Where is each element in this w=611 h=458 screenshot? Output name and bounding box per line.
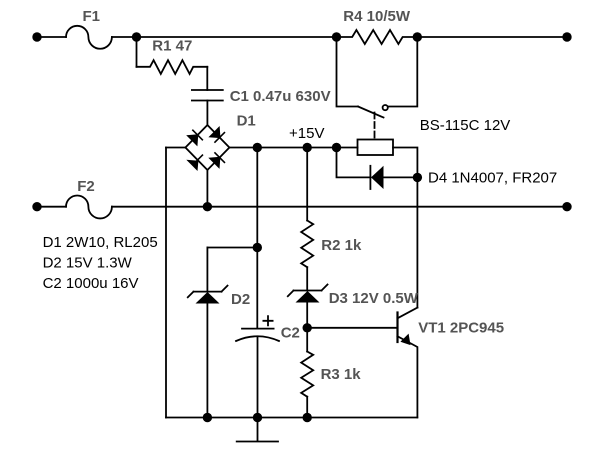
wire bottom rail <box>166 417 417 419</box>
wire bridge right to +15V rail <box>229 147 357 149</box>
svg-text:R1 47: R1 47 <box>152 38 192 55</box>
wire R2 branch top <box>306 148 308 221</box>
svg-text:D4 1N4007, FR207: D4 1N4007, FR207 <box>428 170 557 187</box>
node dot F2 left <box>32 202 41 211</box>
wire D2 branch lower <box>206 304 208 418</box>
wire base <box>307 327 397 329</box>
wire left vertical <box>165 148 167 418</box>
resistor R4 <box>337 30 418 44</box>
relay coil BS-115C <box>358 140 394 156</box>
wire bridge bottom to F2 rail <box>206 170 208 207</box>
node dot top junction R1 <box>132 32 141 41</box>
node dot bottom rail R3 <box>303 413 312 422</box>
resistor R1 <box>137 60 208 74</box>
svg-text:R3 1k: R3 1k <box>321 366 362 383</box>
wire D3 to base node <box>306 303 308 352</box>
switch contact circle <box>383 105 388 110</box>
node dot top rail right end <box>562 32 571 41</box>
diode D4 triangle <box>371 166 384 189</box>
svg-text:BS-115C 12V: BS-115C 12V <box>420 117 511 134</box>
transistor VT1 emitter <box>398 336 418 417</box>
ground <box>237 418 278 442</box>
svg-text:C2 1000u 16V: C2 1000u 16V <box>43 275 139 292</box>
node dot +15V C2 branch <box>253 143 262 152</box>
zener D2 triangle <box>196 292 220 304</box>
svg-text:R2 1k: R2 1k <box>321 237 362 254</box>
switch arm <box>358 107 384 118</box>
wire C2 to bottom rail <box>257 337 259 418</box>
resistor R2 <box>301 221 313 268</box>
svg-text:D3 12V 0.5W: D3 12V 0.5W <box>329 290 419 307</box>
wire top rail left segment <box>37 36 66 38</box>
wire relay contact branch left <box>337 37 359 107</box>
diode D4 bar <box>369 166 371 189</box>
node dot +15V relay junction <box>332 143 341 152</box>
capacitor C2 plates <box>236 329 279 341</box>
wire D2 branch upper <box>206 248 208 292</box>
label C2 plus <box>263 315 274 326</box>
wire top rail from F1 to junction <box>112 36 137 38</box>
svg-text:F2: F2 <box>77 178 95 195</box>
capacitor C1 <box>192 90 223 101</box>
svg-text:D2: D2 <box>231 291 250 308</box>
svg-text:+15V: +15V <box>289 125 324 142</box>
wire top rail middle segment <box>137 36 337 38</box>
bridge diode top-left <box>186 134 198 146</box>
node dot F2 rail right end <box>562 202 571 211</box>
node dot +15V R2 branch <box>303 143 312 152</box>
svg-text:D2 15V 1.3W: D2 15V 1.3W <box>43 255 133 272</box>
svg-text:VT1 2PC945: VT1 2PC945 <box>418 320 504 337</box>
wire F2 rail left <box>37 206 66 208</box>
wire D2 horizontal <box>207 247 257 249</box>
bridge diode top-right <box>208 126 220 138</box>
node dot D4 right junction <box>413 173 422 182</box>
bridge rectifier D1 diamond <box>185 125 229 170</box>
zener D2 bar <box>188 286 228 298</box>
wire R2 to D3 <box>306 267 308 290</box>
transistor VT1 emitter arrow <box>400 334 410 346</box>
wire C1 to bridge top <box>206 101 208 126</box>
svg-text:D1 2W10, RL205: D1 2W10, RL205 <box>43 234 158 251</box>
transistor VT1 base bar <box>396 313 398 343</box>
svg-text:C2: C2 <box>281 325 300 342</box>
resistor R3 <box>301 352 313 397</box>
wire bridge left to left vertical <box>166 147 185 149</box>
transistor VT1 collector <box>398 308 418 319</box>
node dot bottom rail D2 <box>203 413 212 422</box>
bridge diode bottom-right <box>208 157 220 169</box>
relay coil dashed link <box>374 113 376 140</box>
node dot R4 right <box>413 32 422 41</box>
node dot F1 left <box>32 32 41 41</box>
svg-text:D1: D1 <box>237 113 256 130</box>
wire F2 rail right <box>112 206 567 208</box>
wire R1 branch down from top rail <box>136 37 138 67</box>
wire R3 to bottom rail <box>306 397 308 418</box>
node dot bridge bottom on F2 rail <box>203 202 212 211</box>
fuse F1 <box>66 26 112 49</box>
svg-text:F1: F1 <box>83 8 101 25</box>
wire C2 node to C2 cap <box>256 248 258 329</box>
node dot D2 C2 junction <box>253 243 262 252</box>
wire D4 branch left <box>337 148 371 178</box>
zener D3 bar <box>288 285 328 297</box>
wire C2 branch from +15V down to D2 node <box>256 148 258 248</box>
wire relay contact branch right <box>388 37 417 107</box>
bridge diode bottom-left <box>186 160 198 171</box>
wire R1 to C1 <box>206 67 208 90</box>
wire D4 right <box>384 176 418 178</box>
wire top rail right segment <box>417 36 567 38</box>
node dot base junction <box>303 323 312 332</box>
node dot R4 left <box>332 32 341 41</box>
svg-text:C1 0.47u 630V: C1 0.47u 630V <box>230 88 331 105</box>
svg-text:R4 10/5W: R4 10/5W <box>343 8 411 25</box>
fuse F2 <box>66 196 112 219</box>
node dot bottom rail ground <box>253 413 262 422</box>
zener D3 triangle <box>296 291 320 303</box>
wire coil right to collector vertical <box>393 148 417 308</box>
